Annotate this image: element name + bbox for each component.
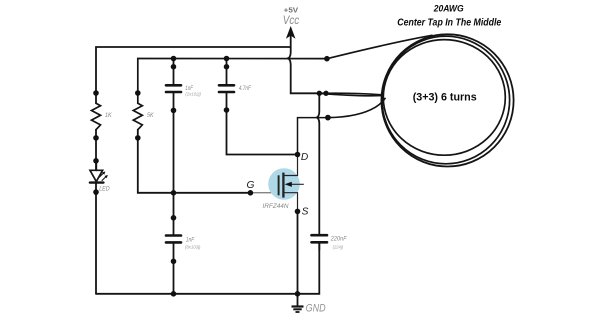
junction dot C2 top pin	[224, 64, 230, 70]
wire capacitor chain mid section	[173, 110, 175, 217]
junction dot C2 top rail	[224, 56, 230, 62]
svg-text:IRFZ44N: IRFZ44N	[263, 203, 289, 210]
svg-text:5K: 5K	[147, 112, 154, 119]
junction dot C2 bottom	[224, 107, 230, 113]
svg-text:GND: GND	[306, 303, 326, 315]
svg-text:1nF: 1nF	[186, 237, 195, 244]
coil bottom lead	[328, 98, 385, 117]
junction dot C1 top rail	[171, 56, 177, 62]
capacitor C4 220nF	[312, 235, 328, 250]
wire top rail from left branch to Vcc	[96, 47, 291, 103]
wire left branch between 1K and LED	[95, 130, 97, 171]
svg-text:+5V: +5V	[284, 5, 299, 14]
junction dot coil center tap pin A	[317, 91, 322, 96]
coil center-tap leads	[319, 93, 382, 95]
wire center-tap pins to coil	[319, 92, 325, 94]
svg-text:(3+3) 6 turns: (3+3) 6 turns	[413, 91, 477, 103]
junction dot gate rail / cap chain	[171, 190, 177, 196]
junction dot C3 bottom	[171, 259, 177, 265]
capacitor C3 1nF (bottom)	[166, 218, 181, 261]
coil L1 inner turn	[383, 40, 505, 156]
junction dot LED bottom	[93, 189, 99, 195]
wire drain branch up and right to coil bottom pin	[298, 118, 328, 155]
svg-text:Center Tap In The Middle: Center Tap In The Middle	[397, 18, 501, 29]
svg-text:(8x103j): (8x103j)	[185, 244, 201, 250]
capacitor C1 1nF (top)	[166, 59, 181, 111]
coil top lead	[327, 35, 432, 58]
ground symbol	[292, 294, 304, 312]
transistor Q1 IRFZ44N	[279, 155, 304, 212]
svg-text:220nF: 220nF	[330, 236, 348, 243]
wire 4.7nF to drain node	[227, 110, 298, 155]
wire 1nF bottom to ground rail	[173, 261, 175, 294]
wire gate pin lead (thin)	[250, 192, 277, 194]
wire feedback rail y=58.5 from 5K branch to coil top pin	[138, 59, 327, 104]
LED D1	[90, 161, 108, 183]
junction dot 1K bottom	[93, 135, 99, 141]
wire ground rail	[96, 244, 319, 294]
junction dot 5K bottom	[135, 135, 141, 141]
wire left branch below LED	[95, 183, 97, 294]
MOSFET Q1 highlight circle	[268, 168, 300, 200]
resistor R1 1K	[92, 103, 101, 129]
junction dot ground rail / source	[295, 291, 301, 297]
coil L1 outer turn	[381, 34, 513, 166]
svg-text:4.7nF: 4.7nF	[239, 85, 252, 92]
junction dot LED top	[93, 158, 99, 164]
junction dot C1 top pin	[171, 64, 177, 70]
svg-text:D: D	[301, 152, 309, 163]
resistor R2 5K	[133, 103, 142, 129]
svg-text:(224j): (224j)	[333, 244, 344, 250]
svg-text:(2x102j): (2x102j)	[185, 91, 201, 97]
svg-text:G: G	[247, 180, 255, 191]
junction dot C1 bottom	[171, 108, 177, 114]
junction dot source node S	[295, 209, 301, 215]
svg-text:LED: LED	[99, 186, 110, 193]
capacitor C2 4.7nF	[219, 59, 234, 111]
junction dot coil center tap pin B	[323, 91, 328, 96]
svg-text:1K: 1K	[105, 112, 112, 119]
junction dot C3 top	[171, 215, 177, 221]
wire Vcc stem with hop over feedback rail	[287, 34, 319, 93]
svg-text:1nF: 1nF	[185, 85, 193, 92]
junction dot 1K top	[93, 90, 99, 96]
wire gate rail from 5K bottom to MOSFET gate	[138, 130, 251, 193]
junction dot coil top pin	[324, 56, 330, 62]
junction dot ground rail / cap chain	[171, 291, 177, 297]
wire center-tap drop with hop over drain-coil wire, down to 220nF	[316, 93, 319, 234]
junction dot drain node D	[295, 152, 301, 158]
svg-text:S: S	[302, 207, 309, 218]
coil L1 second turn	[382, 36, 510, 164]
junction dot 5K top	[135, 90, 141, 96]
wire source branch	[297, 211, 299, 293]
Vcc arrow	[286, 26, 296, 39]
junction dot gate pin G	[248, 190, 254, 196]
junction dot coil bottom pin	[325, 115, 331, 121]
svg-text:20AWG: 20AWG	[433, 3, 464, 14]
svg-text:Vcc: Vcc	[283, 15, 300, 27]
